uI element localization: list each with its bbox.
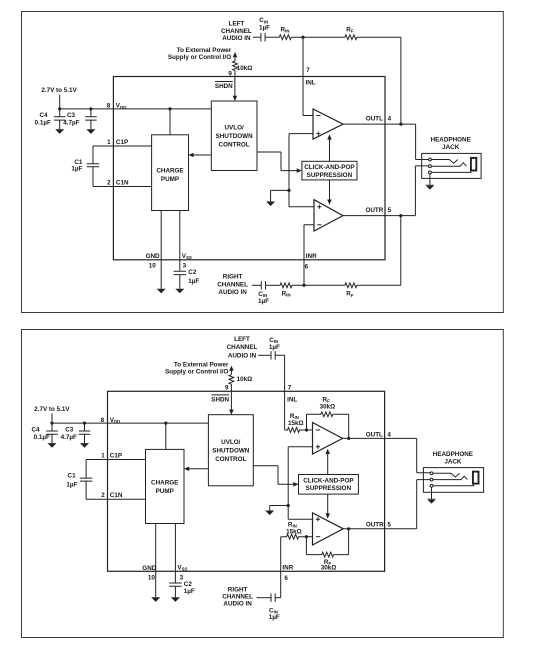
svg-text:8: 8	[107, 103, 111, 110]
wire RF to feedback corner	[357, 284, 401, 286]
capacitor C3 4.7uF	[85, 109, 97, 129]
svg-text:4.7µF: 4.7µF	[63, 120, 79, 127]
svg-text:1µF: 1µF	[269, 614, 280, 621]
svg-text:LEFT: LEFT	[234, 336, 250, 343]
resistor 10k pullup	[233, 61, 238, 71]
op-amp U2A (left channel)	[313, 423, 343, 455]
wire pin 10 GND	[155, 524, 157, 598]
svg-text:C2: C2	[184, 581, 193, 588]
wire VDD rail internal	[113, 108, 211, 110]
svg-text:1: 1	[107, 139, 111, 146]
wire bias to +R	[288, 518, 312, 520]
svg-text:To External Power: To External Power	[174, 361, 229, 368]
wire audio in R to CIN	[252, 284, 261, 286]
svg-text:C1: C1	[68, 472, 77, 479]
svg-text:1µF: 1µF	[259, 25, 270, 32]
node C3 junction	[89, 107, 92, 110]
node VDD branch	[168, 107, 171, 110]
wire bias to ground	[270, 506, 289, 511]
svg-text:1µF: 1µF	[66, 481, 77, 488]
resistor RF (left)	[345, 35, 357, 40]
svg-text:CONTROL: CONTROL	[219, 141, 250, 148]
svg-text:2.7V to 5.1V: 2.7V to 5.1V	[34, 406, 70, 413]
svg-text:C3: C3	[65, 426, 74, 433]
svg-text:INL: INL	[306, 80, 316, 87]
node OUTL feedback	[399, 123, 402, 126]
node VDD branch	[164, 422, 167, 425]
svg-text:OUTL: OUTL	[366, 432, 383, 439]
wire bias to +R	[289, 206, 314, 208]
wire CIN to pin 7 INL	[275, 355, 284, 430]
capacitor C3 4.7uF	[79, 423, 91, 443]
wire SHDN into UVLO (arrow)	[234, 77, 236, 97]
IC boundary box U2	[108, 391, 385, 571]
svg-text:10kΩ: 10kΩ	[237, 65, 253, 72]
svg-text:10: 10	[149, 263, 157, 270]
node OUTL feedback	[347, 437, 350, 440]
wire bias to +L	[289, 133, 313, 135]
svg-text:GND: GND	[142, 565, 156, 572]
capacitor CIN 1uF (left)	[271, 351, 275, 359]
node INL input	[301, 36, 304, 39]
wire CIN to RIN	[265, 36, 279, 38]
resistor RIN 15k (right)	[281, 534, 307, 539]
wire VDD rail external	[60, 108, 114, 110]
op-amp U1A (left channel)	[313, 109, 343, 139]
svg-text:2: 2	[107, 179, 111, 186]
wire pin 6 INR rise	[280, 537, 282, 598]
svg-text:C1P: C1P	[110, 453, 122, 460]
wire clickpop to opamp L (arrow up)	[329, 139, 331, 161]
capacitor C1 1uF flying	[80, 460, 92, 500]
svg-text:CLICK-AND-POP: CLICK-AND-POP	[304, 164, 354, 171]
capacitor C2 1uF	[174, 271, 186, 288]
jack sleeve contact	[429, 171, 432, 174]
wire audio in to CIN	[253, 36, 261, 38]
charge pump block	[152, 135, 189, 211]
wire OUTR output	[343, 480, 430, 529]
wire 10k to pin 9	[234, 71, 236, 77]
svg-text:HEADPHONE: HEADPHONE	[433, 451, 473, 458]
svg-text:Supply or Control I/O: Supply or Control I/O	[165, 368, 228, 375]
wire pin 1 C1P	[93, 145, 152, 147]
wire audio in R to CIN	[257, 597, 272, 599]
svg-text:15kΩ: 15kΩ	[288, 420, 304, 427]
headphone jack J1	[422, 153, 481, 178]
resistor RF 30k feedback (right)	[306, 529, 348, 557]
wire pin 1 C1P	[86, 459, 145, 461]
wire pin 2 C1N	[93, 186, 152, 188]
wire RIN to RF (right)	[292, 284, 345, 286]
svg-text:PUMP: PUMP	[156, 488, 174, 495]
node -R input	[305, 535, 308, 538]
svg-text:4: 4	[388, 116, 392, 123]
wire OUTL output	[343, 124, 429, 159]
wire OUTL output	[343, 438, 430, 472]
wire CIN to RIN (right)	[266, 284, 281, 286]
ground (C3)	[86, 129, 95, 134]
wire UVLO to clickpop (arrow)	[253, 466, 294, 485]
ground (C4)	[55, 129, 64, 134]
wire VDD to charge pump	[169, 109, 171, 135]
resistor RF 30k feedback (left)	[307, 412, 349, 439]
jack sleeve contact	[430, 484, 433, 487]
resistor RF (right)	[345, 283, 357, 288]
svg-text:RIGHT: RIGHT	[223, 274, 243, 281]
figure frame (top)	[22, 12, 504, 313]
charge pump block	[146, 449, 185, 523]
svg-text:OUTL: OUTL	[366, 116, 383, 123]
svg-text:1µF: 1µF	[269, 344, 280, 351]
capacitor CIN 1uF (left)	[261, 33, 265, 42]
svg-text:9: 9	[228, 70, 232, 77]
svg-text:2: 2	[101, 492, 105, 499]
wire bias to ground	[271, 190, 289, 201]
svg-text:CHARGE: CHARGE	[156, 168, 183, 175]
UVLO/shutdown control block	[208, 415, 253, 486]
wire bias to +L	[288, 446, 312, 448]
capacitor C1 1uF flying	[87, 146, 99, 187]
ground (C2)	[175, 289, 184, 294]
wire CIN to pin 6 INR	[275, 597, 281, 599]
svg-text:INR: INR	[306, 253, 317, 260]
svg-text:C1N: C1N	[110, 492, 123, 499]
wire UVLO to charge pump (arrow)	[193, 154, 212, 156]
svg-text:0.1µF: 0.1µF	[34, 434, 50, 441]
click-and-pop suppression block	[302, 161, 357, 180]
svg-text:C3: C3	[67, 112, 76, 119]
svg-text:6: 6	[284, 575, 288, 582]
node C4 junction	[50, 422, 53, 425]
capacitor C4 0.1uF	[54, 109, 66, 129]
wire OUTR output	[343, 166, 429, 216]
svg-text:SHDN: SHDN	[215, 83, 233, 90]
svg-text:7: 7	[288, 385, 292, 392]
capacitor C2 1uF	[169, 583, 181, 597]
ground (jack)	[426, 174, 434, 186]
ground (pin 10)	[151, 597, 160, 602]
svg-text:8: 8	[101, 417, 105, 424]
wire supply stub	[51, 413, 53, 423]
svg-text:1µF: 1µF	[258, 298, 269, 305]
ground (C4)	[48, 443, 57, 448]
wire clickpop to opamp R (arrow down)	[327, 494, 329, 514]
svg-text:2.7V to 5.1V: 2.7V to 5.1V	[41, 87, 77, 94]
click-and-pop suppression block	[299, 475, 359, 495]
wire bias vertical	[287, 447, 289, 519]
svg-text:C1P: C1P	[116, 139, 128, 146]
svg-text:AUDIO IN: AUDIO IN	[228, 352, 257, 359]
svg-text:AUDIO IN: AUDIO IN	[222, 35, 251, 42]
svg-text:5: 5	[387, 521, 391, 528]
svg-text:1µF: 1µF	[71, 166, 82, 173]
resistor 10k pullup	[229, 375, 234, 385]
svg-text:SHUTDOWN: SHUTDOWN	[212, 448, 250, 455]
svg-text:C4: C4	[39, 112, 48, 119]
svg-text:INR: INR	[282, 565, 293, 572]
jack ring contact	[430, 478, 433, 481]
svg-text:JACK: JACK	[442, 144, 460, 151]
svg-text:9: 9	[225, 385, 229, 392]
wire supply stub	[59, 95, 61, 109]
capacitor CIN 1uF (right)	[271, 594, 275, 602]
svg-text:SHUTDOWN: SHUTDOWN	[216, 133, 254, 140]
svg-text:PUMP: PUMP	[161, 176, 179, 183]
node -L input	[305, 428, 308, 431]
svg-text:UVLO/: UVLO/	[221, 439, 240, 446]
svg-text:LEFT: LEFT	[229, 21, 245, 28]
svg-text:AUDIO IN: AUDIO IN	[218, 289, 247, 296]
wire pin 3 VSS	[179, 211, 181, 271]
svg-text:C2: C2	[188, 269, 197, 276]
svg-text:30kΩ: 30kΩ	[321, 565, 337, 572]
svg-text:C1N: C1N	[116, 179, 129, 186]
jack plug	[473, 472, 479, 484]
svg-text:C4: C4	[31, 426, 40, 433]
jack tip contact	[429, 158, 432, 161]
capacitor CIN 1uF (right)	[261, 281, 265, 289]
svg-text:30kΩ: 30kΩ	[320, 403, 336, 410]
svg-text:CHANNEL: CHANNEL	[227, 344, 258, 351]
wire RIN to RF node	[291, 36, 345, 38]
node INR input	[302, 284, 305, 287]
jack tip contact	[430, 472, 433, 475]
wire UVLO to clickpop (arrow)	[257, 152, 298, 171]
node bias junction	[287, 189, 290, 192]
wire VDD to charge pump	[165, 423, 167, 449]
svg-text:3: 3	[180, 575, 184, 582]
svg-text:JACK: JACK	[444, 458, 462, 465]
wire OUTR feedback rise	[400, 216, 402, 286]
svg-text:SUPPRESSION: SUPPRESSION	[307, 172, 353, 179]
UVLO/shutdown control block	[211, 101, 257, 171]
wire INL pin 7 drop	[303, 37, 313, 115]
headphone jack J2	[423, 468, 483, 493]
svg-text:AUDIO IN: AUDIO IN	[223, 600, 252, 607]
svg-text:OUTR: OUTR	[366, 521, 384, 528]
wire audio in to CIN	[258, 354, 271, 356]
jack ring contact	[429, 165, 432, 168]
svg-text:15kΩ: 15kΩ	[286, 529, 302, 536]
svg-text:6: 6	[305, 263, 309, 270]
node bias junction	[287, 504, 290, 507]
svg-text:UVLO/: UVLO/	[224, 124, 243, 131]
svg-text:4.7µF: 4.7µF	[61, 434, 77, 441]
svg-text:HEADPHONE: HEADPHONE	[431, 136, 471, 143]
svg-text:1µF: 1µF	[188, 278, 199, 285]
node C3 junction	[83, 422, 86, 425]
svg-text:7: 7	[306, 67, 310, 74]
resistor RIN (left)	[279, 35, 291, 40]
jack plug	[471, 158, 476, 171]
ground (C2)	[171, 597, 180, 602]
wire INR to -R	[304, 225, 314, 285]
svg-text:0.1µF: 0.1µF	[35, 120, 51, 127]
op-amp U2B (right channel)	[313, 513, 344, 545]
svg-text:INL: INL	[287, 397, 297, 404]
ground (C3)	[80, 443, 89, 448]
wire node to -L	[307, 429, 313, 431]
svg-text:5: 5	[388, 207, 392, 214]
svg-text:3: 3	[183, 262, 187, 269]
svg-text:SUPPRESSION: SUPPRESSION	[306, 485, 352, 492]
node OUTR feedback	[347, 527, 350, 530]
svg-text:CHANNEL: CHANNEL	[217, 281, 248, 288]
wire pin 10 GND	[160, 211, 162, 289]
wire SHDN into UVLO (arrow)	[230, 391, 232, 410]
wire pin 3 VSS	[174, 524, 176, 583]
svg-text:OUTR: OUTR	[365, 207, 383, 214]
svg-text:1: 1	[101, 453, 105, 460]
resistor RIN (right)	[280, 283, 292, 288]
svg-text:CLICK-AND-POP: CLICK-AND-POP	[303, 477, 353, 484]
resistor RIN 15k (left)	[285, 428, 307, 433]
ground (bias)	[266, 202, 275, 207]
svg-text:To External Power: To External Power	[177, 47, 232, 54]
wire pin 2 C1N	[86, 498, 145, 500]
svg-text:GND: GND	[146, 253, 160, 260]
svg-text:SHDN: SHDN	[211, 397, 229, 404]
wire arrow up to external control	[233, 52, 238, 57]
svg-text:Supply or Control I/O: Supply or Control I/O	[168, 54, 231, 61]
wire RF to OUTL feedback drop	[357, 37, 401, 124]
ground (pin 10)	[157, 289, 166, 294]
op-amp U1B (right channel)	[314, 200, 343, 231]
svg-text:10: 10	[148, 575, 156, 582]
wire 10k to pin 9	[230, 384, 232, 391]
svg-text:CHARGE: CHARGE	[151, 479, 178, 486]
capacitor C4 0.1uF	[46, 423, 58, 443]
node OUTR feedback	[399, 214, 402, 217]
svg-text:10kΩ: 10kΩ	[237, 376, 253, 383]
svg-text:1µF: 1µF	[184, 588, 195, 595]
svg-text:CONTROL: CONTROL	[215, 456, 246, 463]
wire arrow up to external control	[229, 366, 234, 371]
figure frame (bottom)	[22, 330, 504, 638]
wire VDD rail internal	[108, 422, 209, 424]
node C4 junction	[58, 107, 61, 110]
wire node to -R	[306, 536, 312, 538]
ground (jack)	[428, 487, 436, 499]
ground (bias)	[265, 511, 274, 516]
wire clickpop to opamp R (arrow down)	[329, 180, 331, 200]
svg-text:4: 4	[387, 432, 391, 439]
wire bias vertical	[288, 134, 290, 207]
wire UVLO to charge pump (arrow)	[188, 468, 208, 470]
IC boundary box U1	[113, 77, 385, 260]
wire VDD rail external	[52, 422, 108, 424]
wire clickpop to opamp L (arrow up)	[327, 453, 329, 474]
